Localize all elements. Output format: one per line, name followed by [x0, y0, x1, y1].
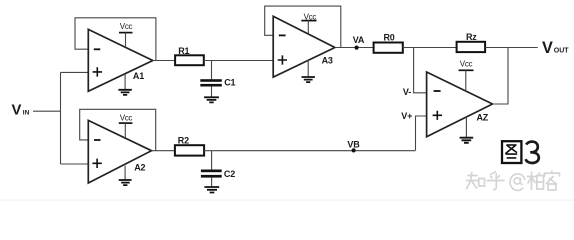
faint bottom artifact line	[0, 200, 574, 201]
watermark 知乎 @柏客	[467, 171, 560, 190]
svg-text:R0: R0	[384, 33, 395, 43]
wire A3 output rail	[335, 47, 374, 49]
wire C2 junction drop	[211, 151, 213, 170]
svg-text:A1: A1	[133, 71, 144, 81]
svg-text:VA: VA	[353, 35, 365, 45]
ground AZ	[460, 117, 474, 143]
wire A3 feedback loop	[265, 6, 341, 47]
wire A2 feedback loop	[80, 109, 156, 150]
svg-text:V+: V+	[401, 111, 412, 121]
ground A1	[118, 74, 131, 95]
node VIN label	[12, 103, 30, 119]
capacitor C1	[200, 78, 235, 88]
wire A1 plus input	[61, 71, 89, 73]
node VOUT label	[542, 39, 569, 57]
wire V- sense from R0 Rz junction	[414, 48, 427, 93]
wire Rz to VOUT	[485, 47, 538, 49]
resistor R1	[175, 46, 204, 65]
wire A2 output to R2	[152, 150, 175, 152]
wire A1 output to R1	[153, 60, 175, 62]
wire R0 to Rz	[403, 47, 457, 49]
svg-text:A3: A3	[322, 56, 333, 66]
resistor Rz	[457, 32, 486, 52]
figure caption 图3	[502, 141, 539, 163]
capacitor C2	[201, 169, 235, 179]
svg-text:V: V	[542, 39, 553, 57]
ground A2	[119, 166, 132, 185]
svg-text:AZ: AZ	[477, 113, 489, 123]
svg-text:Vcc: Vcc	[460, 60, 473, 69]
ground A3	[302, 60, 315, 82]
op-amp A1	[88, 29, 153, 91]
wire A1 feedback loop	[75, 18, 156, 61]
resistor R2	[175, 136, 204, 156]
Vcc symbol A1	[119, 22, 133, 47]
ground C1	[204, 87, 219, 103]
wire R2 to V+ riser VB rail	[204, 150, 415, 152]
op-amp AZ	[427, 72, 493, 137]
ground C2	[204, 178, 219, 193]
svg-text:C1: C1	[224, 78, 235, 88]
wire A2 plus input	[61, 163, 89, 165]
svg-text:Vcc: Vcc	[120, 113, 133, 122]
Vcc symbol AZ	[459, 60, 474, 91]
wire AZ output riser	[493, 48, 509, 105]
Vcc symbol A3	[301, 12, 316, 33]
watermark at-sign	[510, 174, 525, 191]
Vcc symbol A2	[119, 113, 133, 137]
op-amp A3	[273, 16, 335, 77]
wire R1 to A3 plus input	[204, 60, 273, 62]
svg-text:V-: V-	[403, 87, 411, 97]
svg-text:R2: R2	[178, 136, 189, 146]
svg-text:Rz: Rz	[466, 32, 477, 42]
svg-text:A2: A2	[134, 163, 145, 173]
svg-text:C2: C2	[224, 169, 235, 179]
svg-text:IN: IN	[23, 109, 30, 116]
wire VIN lead	[33, 110, 61, 112]
node VB	[347, 140, 360, 153]
op-amp A2	[88, 120, 151, 183]
svg-text:OUT: OUT	[554, 48, 570, 55]
wire V+ riser from VB	[416, 116, 427, 150]
node VA	[353, 35, 365, 50]
svg-text:VB: VB	[347, 140, 360, 150]
svg-text:Vcc: Vcc	[120, 22, 133, 31]
svg-text:V: V	[12, 103, 22, 119]
wire C1 junction drop	[211, 61, 213, 80]
resistor R0	[374, 33, 403, 53]
wire VIN vertical bus	[60, 72, 62, 164]
